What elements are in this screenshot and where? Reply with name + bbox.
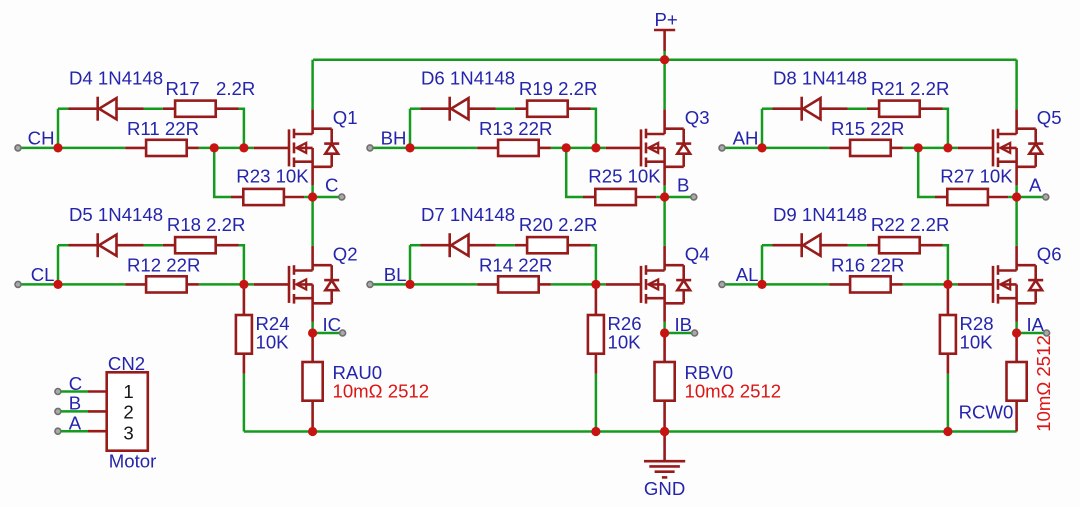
- ground symbol: [644, 432, 685, 478]
- wire tap down to R25: [566, 148, 583, 197]
- wire Q2 source to node IC: [311, 322, 314, 333]
- svg-text:R14 22R: R14 22R: [479, 255, 552, 276]
- diode D9 1N4148: [773, 233, 848, 257]
- wire CL junction up to diode row: [57, 245, 60, 284]
- wire BL junction to R14: [410, 283, 477, 286]
- resistor R22 2.2R: [867, 237, 943, 253]
- wire Q5 source to node A: [1015, 185, 1018, 197]
- wire AH pin to junction: [725, 147, 762, 150]
- svg-text:D9 1N4148: D9 1N4148: [773, 204, 867, 225]
- svg-text:B: B: [69, 393, 81, 414]
- junction R25 tap: [562, 143, 571, 152]
- wire Q1 source to node C: [311, 185, 314, 197]
- diode D6 1N4148: [421, 97, 496, 121]
- shunt resistor RBV0 10mOhm: [655, 333, 675, 432]
- wire Q5 drain to top rail: [1015, 60, 1018, 110]
- svg-text:3: 3: [123, 422, 133, 443]
- wire CN2 pin 1: [61, 390, 107, 393]
- resistor R27 10K: [935, 189, 1008, 205]
- wire R25 to node B: [656, 196, 664, 199]
- wire R19 to corner down: [591, 109, 596, 148]
- junction R26 ground rail: [591, 427, 600, 436]
- wire BH pin to junction: [373, 147, 410, 150]
- resistor R21 2.2R: [867, 101, 943, 117]
- resistor R11 22R: [125, 140, 199, 156]
- junction R27 tap: [914, 143, 923, 152]
- pin IA: [1044, 330, 1050, 336]
- junction CH: [53, 143, 62, 152]
- svg-text:10K: 10K: [256, 332, 290, 353]
- junction CL: [53, 280, 62, 289]
- wire Q3 source to node B: [663, 185, 666, 197]
- svg-text:Q3: Q3: [685, 107, 710, 128]
- svg-text:D6 1N4148: D6 1N4148: [421, 67, 515, 88]
- svg-text:D4 1N4148: D4 1N4148: [69, 67, 163, 88]
- svg-text:R13 22R: R13 22R: [479, 118, 552, 139]
- svg-text:C: C: [325, 175, 338, 196]
- svg-text:RCW0: RCW0: [959, 401, 1014, 422]
- resistor R16 22R: [829, 276, 903, 292]
- resistor R17 2.2R: [163, 101, 239, 117]
- pin CH: [15, 145, 21, 151]
- wire tap down to R23: [214, 148, 231, 197]
- svg-text:AH: AH: [733, 128, 759, 149]
- node IB junction: [660, 328, 669, 337]
- svg-text:Q2: Q2: [333, 244, 358, 265]
- svg-text:P+: P+: [655, 9, 678, 30]
- wire Q4 source to node IB: [663, 322, 666, 333]
- wire AL junction to R16: [762, 283, 829, 286]
- wire diode row to D7: [410, 244, 421, 247]
- wire CN2 pin 2: [61, 410, 107, 413]
- resistor R12 22R: [125, 276, 199, 292]
- wire node IB to pin: [665, 332, 692, 335]
- wire R27 to node A: [1008, 196, 1016, 199]
- svg-text:Motor: Motor: [109, 451, 157, 472]
- pin IC: [340, 330, 346, 336]
- diode D7 1N4148: [421, 233, 496, 257]
- transistor Q6 N-MOSFET: [958, 246, 1043, 322]
- wire diode row to D9: [762, 244, 773, 247]
- resistor R18 2.2R: [163, 237, 239, 253]
- resistor R14 22R: [477, 276, 551, 292]
- wire R15 to gate node: [903, 147, 958, 150]
- pin BL: [367, 281, 373, 287]
- junction RAU0 ground rail: [308, 427, 317, 436]
- pin AL: [719, 281, 725, 287]
- svg-text:R21 2.2R: R21 2.2R: [871, 78, 950, 99]
- svg-text:CH: CH: [28, 128, 55, 149]
- svg-text:R23 10K: R23 10K: [236, 166, 309, 187]
- wire CH junction to R11: [58, 147, 125, 150]
- pin A: [1043, 194, 1049, 200]
- svg-text:AL: AL: [736, 264, 759, 285]
- junction BH: [405, 143, 414, 152]
- wire Q3 drain to top rail: [663, 60, 666, 110]
- wire BL junction up to diode row: [409, 245, 412, 284]
- diode D4 1N4148: [69, 97, 144, 121]
- svg-text:D5 1N4148: D5 1N4148: [69, 204, 163, 225]
- svg-text:10mΩ 2512: 10mΩ 2512: [333, 380, 430, 401]
- pin CN2-1: [55, 389, 61, 395]
- svg-text:CN2: CN2: [108, 353, 145, 374]
- svg-text:10mΩ 2512: 10mΩ 2512: [685, 380, 782, 401]
- svg-text:GND: GND: [644, 478, 685, 499]
- junction R23 tap: [210, 143, 219, 152]
- pin BH: [367, 145, 373, 151]
- wire D9 to R22: [848, 244, 867, 247]
- wire R22 to corner down: [943, 245, 948, 284]
- wire tap down to R27: [918, 148, 935, 197]
- svg-text:2: 2: [123, 402, 133, 423]
- wire bottom ground rail: [244, 430, 1017, 433]
- wire node B to Q4 drain: [663, 197, 666, 246]
- junction ground rail / GND: [660, 427, 669, 436]
- svg-text:R19 2.2R: R19 2.2R: [519, 78, 598, 99]
- transistor Q1 N-MOSFET: [254, 109, 340, 185]
- wire Q1 drain to top rail: [311, 60, 314, 110]
- svg-text:10K: 10K: [960, 332, 994, 353]
- junction gate Q2: [239, 280, 248, 289]
- svg-text:IA: IA: [1027, 314, 1045, 335]
- svg-text:10K: 10K: [608, 332, 642, 353]
- pin C: [339, 194, 345, 200]
- svg-text:A: A: [1029, 175, 1042, 196]
- resistor R28 10K gate pulldown: [940, 284, 956, 373]
- svg-text:R22 2.2R: R22 2.2R: [871, 214, 950, 235]
- node IA junction: [1012, 328, 1021, 337]
- junction gate Q4: [591, 280, 600, 289]
- resistor R24 10K gate pulldown: [236, 284, 252, 373]
- wire BH junction to R13: [410, 147, 477, 150]
- resistor R13 22R: [477, 140, 551, 156]
- wire CH junction up to diode row: [57, 109, 60, 148]
- svg-text:R12 22R: R12 22R: [127, 255, 200, 276]
- junction gate Q6: [943, 280, 952, 289]
- svg-text:R25 10K: R25 10K: [588, 166, 661, 187]
- wire R26 to ground rail: [595, 374, 598, 432]
- svg-text:Q6: Q6: [1037, 244, 1062, 265]
- wire AH junction to R15: [762, 147, 829, 150]
- wire D5 to R18: [144, 244, 163, 247]
- svg-text:BL: BL: [384, 264, 407, 285]
- wire top P+ rail: [313, 58, 1017, 61]
- svg-text:R17: R17: [166, 78, 200, 99]
- junction BL: [405, 280, 414, 289]
- junction AH: [757, 143, 766, 152]
- wire node A to Q6 drain: [1015, 197, 1018, 246]
- svg-text:IC: IC: [323, 314, 342, 335]
- wire R12 to gate node: [199, 283, 254, 286]
- wire R23 to node C: [304, 196, 312, 199]
- wire R24 to ground rail: [243, 374, 246, 432]
- wire R14 to gate node: [551, 283, 606, 286]
- svg-text:R20 2.2R: R20 2.2R: [519, 214, 598, 235]
- wire R11 to gate node: [199, 147, 254, 150]
- wire BL pin to junction: [373, 283, 410, 286]
- resistor R26 10K gate pulldown: [588, 284, 604, 373]
- svg-text:A: A: [69, 413, 82, 434]
- svg-text:1: 1: [123, 381, 133, 402]
- svg-text:Q5: Q5: [1037, 107, 1062, 128]
- pin AH: [719, 145, 725, 151]
- wire node C to pin: [313, 196, 339, 199]
- transistor Q2 N-MOSFET: [254, 246, 340, 322]
- power flag P+: [654, 30, 675, 60]
- wire AL junction up to diode row: [761, 245, 764, 284]
- wire node A to pin: [1017, 196, 1043, 199]
- transistor Q3 N-MOSFET: [606, 109, 692, 185]
- pin CN2-3: [55, 428, 61, 434]
- wire D8 to R21: [848, 107, 867, 110]
- wire AL pin to junction: [725, 283, 762, 286]
- pin B: [691, 194, 697, 200]
- svg-text:Q1: Q1: [333, 107, 358, 128]
- wire R21 to corner down: [943, 109, 948, 148]
- wire AH junction up to diode row: [761, 109, 764, 148]
- wire node B to pin: [665, 196, 691, 199]
- transistor Q5 N-MOSFET: [958, 109, 1043, 185]
- wire diode row to D8: [762, 107, 773, 110]
- node B junction: [660, 192, 669, 201]
- junction RBV0 ground rail: [660, 427, 669, 436]
- svg-text:R16 22R: R16 22R: [831, 255, 904, 276]
- resistor R19 2.2R: [515, 101, 591, 117]
- wire node IC to pin: [313, 332, 340, 335]
- junction gate Q5: [943, 143, 952, 152]
- connector CN2 body: [107, 372, 148, 450]
- wire diode row to D5: [58, 244, 69, 247]
- wire diode row to D4: [58, 107, 69, 110]
- svg-text:C: C: [69, 373, 82, 394]
- junction gate Q3: [591, 143, 600, 152]
- resistor R25 10K: [583, 189, 656, 205]
- resistor R23 10K: [231, 189, 304, 205]
- resistor R20 2.2R: [515, 237, 591, 253]
- transistor Q4 N-MOSFET: [606, 246, 692, 322]
- wire R28 to ground rail: [947, 374, 950, 432]
- wire R13 to gate node: [551, 147, 606, 150]
- wire CL junction to R12: [58, 283, 125, 286]
- resistor R15 22R: [829, 140, 903, 156]
- wire D6 to R19: [496, 107, 515, 110]
- wire CH pin to junction: [21, 147, 58, 150]
- svg-text:Q4: Q4: [685, 244, 710, 265]
- wire BH junction up to diode row: [409, 109, 412, 148]
- wire D4 to R17: [144, 107, 163, 110]
- svg-text:R11 22R: R11 22R: [127, 118, 199, 139]
- svg-text:CL: CL: [31, 264, 55, 285]
- svg-text:10mΩ 2512: 10mΩ 2512: [1033, 335, 1054, 432]
- svg-text:R18 2.2R: R18 2.2R: [167, 214, 246, 235]
- node A junction: [1012, 192, 1021, 201]
- svg-text:R27 10K: R27 10K: [940, 166, 1013, 187]
- wire R18 to corner down: [239, 245, 244, 284]
- svg-text:BH: BH: [381, 128, 407, 149]
- junction gate Q1: [239, 143, 248, 152]
- diode D8 1N4148: [773, 97, 848, 121]
- wire R17 to corner down: [239, 109, 244, 148]
- pin CL: [15, 281, 21, 287]
- junction AL: [757, 280, 766, 289]
- wire CN2 pin 3: [61, 430, 107, 433]
- wire D7 to R20: [496, 244, 515, 247]
- wire diode row to D6: [410, 107, 421, 110]
- wire R16 to gate node: [903, 283, 958, 286]
- junction top rail / P+: [660, 55, 669, 64]
- node C junction: [308, 192, 317, 201]
- shunt resistor RAU0 10mOhm: [303, 333, 323, 432]
- wire Q6 source to node IA: [1015, 322, 1018, 333]
- svg-text:IB: IB: [675, 314, 693, 335]
- wire node C to Q2 drain: [311, 197, 314, 246]
- svg-text:B: B: [677, 175, 689, 196]
- junction R28 ground rail: [943, 427, 952, 436]
- svg-text:R15 22R: R15 22R: [831, 118, 904, 139]
- diode D5 1N4148: [69, 233, 144, 257]
- svg-text:D8 1N4148: D8 1N4148: [773, 67, 867, 88]
- pin IB: [692, 330, 698, 336]
- svg-text:2.2R: 2.2R: [216, 78, 255, 99]
- wire CL pin to junction: [21, 283, 58, 286]
- svg-text:D7 1N4148: D7 1N4148: [421, 204, 515, 225]
- node IC junction: [308, 328, 317, 337]
- wire R20 to corner down: [591, 245, 596, 284]
- shunt resistor RCW0 10mOhm: [1007, 333, 1027, 432]
- wire node IA to pin: [1017, 332, 1044, 335]
- pin CN2-2: [55, 408, 61, 414]
